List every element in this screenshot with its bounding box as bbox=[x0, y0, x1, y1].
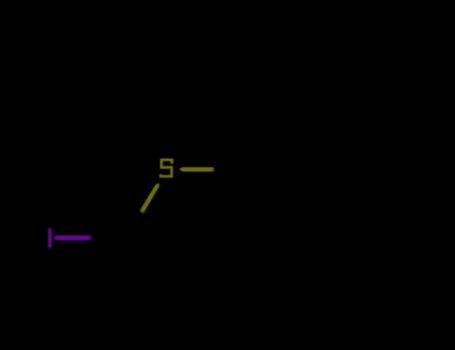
atom label I (iodine) bbox=[48, 228, 51, 248]
bond S-CH2 diagonal, sulfur-colored half bbox=[141, 185, 157, 212]
bond S-C(phenyl), sulfur-colored half bbox=[179, 167, 216, 171]
bond S-CH2 diagonal tip taper at S label bbox=[156, 183, 160, 186]
bond I-CH2, iodine-colored half bbox=[53, 235, 93, 240]
atom label S (sulfur) bbox=[161, 160, 172, 177]
